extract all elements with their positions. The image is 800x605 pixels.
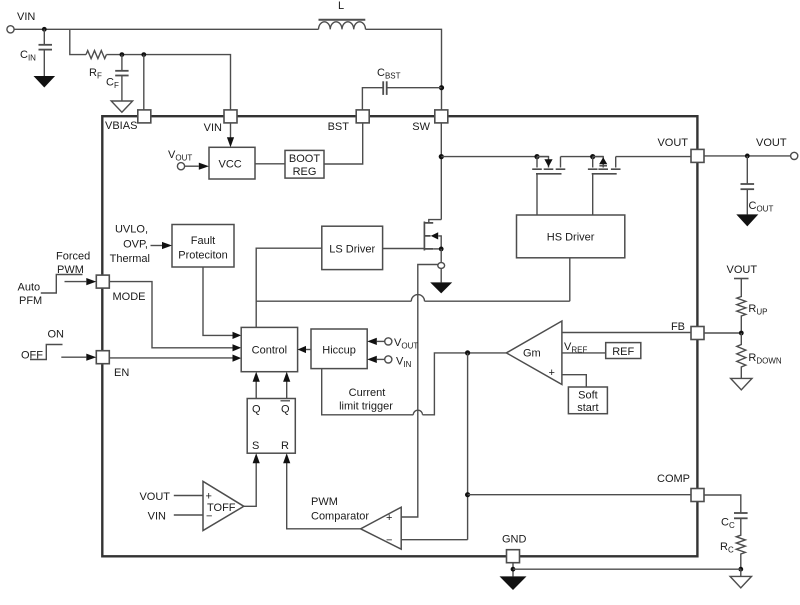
svg-text:RF: RF — [89, 67, 102, 81]
node junction dot COMP branch — [465, 492, 470, 497]
node VOUT T-bar — [734, 278, 749, 280]
wire VIN pin to VCC with arrow — [230, 123, 232, 138]
transistor Q1 (high-side FET with body diode down) — [532, 154, 565, 215]
svg-text:CBST: CBST — [377, 67, 401, 81]
svg-text:Soft: Soft — [578, 390, 598, 402]
svg-text:start: start — [577, 402, 598, 414]
node junction dot M1 source — [439, 247, 444, 252]
svg-text:OVP,: OVP, — [123, 239, 148, 251]
svg-text:Hiccup: Hiccup — [322, 345, 356, 357]
svg-text:GND: GND — [502, 534, 527, 546]
svg-text:BST: BST — [328, 121, 350, 133]
wire EN pin to Control — [109, 357, 232, 359]
svg-text:CC: CC — [721, 517, 735, 531]
pin COMP — [691, 489, 704, 502]
pin MODE — [96, 275, 109, 288]
node junction dot below RC — [738, 567, 743, 572]
svg-text:HS Driver: HS Driver — [547, 232, 595, 244]
svg-text:BOOT: BOOT — [289, 153, 320, 165]
svg-text:VOUT: VOUT — [756, 137, 787, 149]
wire branch from VIN rail down to RF — [70, 29, 86, 54]
wire Fault Proteciton to Control — [203, 267, 233, 335]
svg-text:REG: REG — [293, 166, 317, 178]
node junction dot Gm output — [465, 350, 470, 355]
svg-text:Current: Current — [349, 387, 386, 399]
pin VIN — [224, 110, 237, 123]
svg-text:Gm: Gm — [523, 348, 541, 360]
box Fault Proteciton — [172, 225, 234, 268]
wire M1 source to sense circle — [440, 249, 442, 263]
wire GND pin stub down — [512, 563, 514, 577]
svg-text:+: + — [206, 491, 212, 503]
svg-text:RDOWN: RDOWN — [748, 352, 782, 366]
svg-text:Proteciton: Proteciton — [178, 250, 228, 262]
latch U2 (SR flip-flop) — [247, 399, 295, 454]
wire VBIAS tap down to VBIAS pin — [143, 55, 145, 110]
svg-text:SW: SW — [412, 121, 430, 133]
capacitor CIN — [20, 29, 52, 76]
terminal VIN (input pin circle) — [7, 26, 14, 33]
svg-text:MODE: MODE — [113, 291, 146, 303]
box HS Driver — [517, 215, 625, 258]
box Control — [241, 327, 297, 371]
wire VIN to TOFF - input — [174, 514, 203, 516]
op-amp Gm error amplifier — [506, 321, 562, 385]
signal step symbol at MODE — [41, 275, 83, 294]
svg-text:VIN: VIN — [148, 511, 166, 523]
svg-text:RUP: RUP — [748, 303, 767, 317]
wire arrow TOFF output into S — [244, 463, 256, 506]
pin GND — [507, 550, 520, 563]
box Soft start — [568, 387, 607, 414]
wire VCC to BOOT REG — [255, 163, 285, 165]
box BOOT REG — [285, 150, 324, 178]
wire hop over sense line — [411, 295, 424, 302]
ground (open) below RDOWN — [731, 378, 752, 389]
svg-text:Q: Q — [281, 404, 290, 416]
signal step symbol at EN — [30, 345, 63, 360]
wire VIN main rail — [14, 28, 318, 30]
svg-text:limit trigger: limit trigger — [339, 401, 393, 413]
ground (solid) below GND pin — [500, 576, 527, 590]
box REF — [606, 343, 641, 359]
wire MODE pin to Control — [109, 282, 232, 348]
node junction dot at CF tap — [120, 52, 125, 57]
node VOUT input to VCC — [177, 163, 184, 170]
pin EN — [96, 351, 109, 364]
resistor RF — [86, 51, 106, 59]
svg-text:Q: Q — [252, 404, 261, 416]
transistor M1 (low-side NMOS) — [424, 220, 441, 251]
pin VBIAS — [138, 110, 151, 123]
wire VOUT to TOFF + input — [174, 495, 203, 497]
wire arrow into MODE pin — [65, 281, 87, 283]
wire Gm FB input to FB pin — [562, 332, 691, 334]
svg-text:S: S — [252, 440, 259, 452]
resistor RC — [736, 518, 745, 569]
op-amp TOFF comparator — [203, 481, 244, 530]
ground (solid) below CIN — [34, 76, 56, 88]
wire BOOT REG to BST pin — [324, 123, 363, 164]
wire Gm + input to Soft start — [562, 375, 586, 387]
svg-text:VOUT: VOUT — [727, 264, 758, 276]
svg-text:ON: ON — [48, 329, 65, 341]
node VOUT input circle to Hiccup — [385, 338, 392, 345]
wire Gm output to COMP vertical — [468, 352, 507, 354]
wire GND to compensation ground rail — [513, 568, 741, 570]
node junction dot COUT tap — [745, 154, 750, 159]
pin BST — [356, 110, 369, 123]
svg-text:VOUT: VOUT — [139, 491, 170, 503]
wire HS Driver output down — [569, 258, 571, 301]
wire internal VOUT rail — [441, 156, 691, 158]
wire COMP node to COMP pin — [468, 494, 691, 496]
capacitor CBST — [362, 67, 441, 110]
wire SW pin down to switch node — [440, 123, 442, 220]
svg-text:Fault: Fault — [191, 235, 215, 247]
svg-text:UVLO,: UVLO, — [115, 224, 148, 236]
resistor RDOWN — [737, 333, 746, 378]
svg-text:R: R — [281, 440, 289, 452]
svg-text:+: + — [386, 512, 392, 524]
svg-text:VIN: VIN — [17, 11, 35, 23]
svg-text:Auto: Auto — [18, 282, 41, 294]
wire sense circle to ground — [440, 268, 442, 282]
op-amp PWM comparator — [361, 507, 402, 549]
capacitor CC — [721, 513, 748, 530]
node junction dot at VBIAS tap — [141, 52, 146, 57]
svg-text:VIN: VIN — [204, 122, 222, 134]
box VCC regulator U-VCC — [209, 147, 255, 179]
node sense circle — [438, 263, 445, 269]
svg-text:EN: EN — [114, 367, 129, 379]
node junction dot GND — [511, 567, 516, 572]
wire drive net: LS input, vertical to Control, horizontal to HS riser with hop — [256, 248, 322, 327]
transistor Q2 (high-side FET with body diode up) — [588, 154, 621, 215]
wire VOUT pin to external VOUT terminal — [704, 155, 791, 157]
svg-text:REF: REF — [612, 346, 634, 358]
wire PWM - input to COMP node — [401, 539, 467, 541]
wire arrow PWM comparator output into R — [287, 463, 361, 529]
wire LS Driver to M1 gate — [383, 248, 425, 250]
wire VREF input to REF box — [562, 352, 606, 354]
wire arrow VOUT into Hiccup — [377, 340, 385, 342]
box LS Driver — [322, 226, 383, 269]
svg-text:CF: CF — [106, 77, 119, 91]
svg-text:VOUT: VOUT — [168, 149, 192, 163]
wire arrow Q to Control — [255, 382, 257, 399]
box Hiccup — [311, 329, 367, 369]
wire RF output to VIN pin branch — [106, 55, 230, 110]
wire current sense branch to PWM comparator — [401, 265, 438, 518]
wire arrow Qbar to Control — [286, 382, 288, 399]
svg-text:−: − — [386, 535, 392, 547]
wire inductor to SW drop — [366, 29, 442, 109]
node junction dot at CIN tap — [42, 27, 47, 32]
node junction dot SW to VOUT rail — [439, 154, 444, 159]
wire FB pin to divider — [704, 332, 741, 334]
svg-text:FB: FB — [671, 321, 685, 333]
wire VOUT circle to VCC with arrow — [185, 165, 199, 167]
svg-text:+: + — [549, 367, 555, 379]
wire COMP pin to compensation network — [704, 495, 741, 513]
pin VOUT — [691, 149, 704, 162]
svg-text:−: − — [206, 511, 212, 523]
pin FB — [691, 327, 704, 340]
IC boundary box — [102, 116, 697, 556]
capacitor CF — [106, 55, 129, 101]
svg-text:VOUT: VOUT — [394, 337, 418, 351]
svg-text:COUT: COUT — [749, 200, 774, 214]
capacitor COUT — [741, 156, 774, 215]
svg-text:COMP: COMP — [657, 473, 690, 485]
svg-text:RC: RC — [720, 541, 734, 555]
svg-text:Thermal: Thermal — [110, 253, 150, 265]
pin SW — [435, 110, 448, 123]
wire arrow into EN pin — [61, 356, 86, 358]
svg-text:PWM: PWM — [311, 496, 338, 508]
svg-text:PFM: PFM — [19, 295, 42, 307]
svg-text:L: L — [338, 0, 344, 12]
svg-text:LS Driver: LS Driver — [329, 244, 375, 256]
svg-text:Forced: Forced — [56, 251, 90, 263]
ground (open) below CF — [111, 101, 132, 112]
wire arrow Hiccup to Control — [306, 349, 311, 351]
svg-text:VIN: VIN — [396, 356, 412, 370]
wire current limit trigger: Hiccup bottom to COMP node with hop — [322, 369, 414, 415]
svg-text:Comparator: Comparator — [311, 511, 369, 523]
node VIN input circle to Hiccup — [385, 356, 392, 363]
resistor RUP — [737, 279, 746, 334]
ground (open) below RC — [740, 569, 742, 576]
node junction dot FB divider — [739, 331, 744, 336]
inductor L — [319, 0, 366, 29]
svg-text:VCC: VCC — [219, 159, 242, 171]
svg-text:VOUT: VOUT — [657, 137, 688, 149]
node junction dot at CBST/SW — [439, 85, 444, 90]
wire arrow VIN into Hiccup — [377, 358, 385, 360]
terminal VOUT circle — [791, 152, 798, 159]
ground (solid) below COUT — [736, 214, 758, 226]
svg-text:Control: Control — [252, 345, 287, 357]
svg-text:CIN: CIN — [20, 49, 36, 63]
svg-text:VBIAS: VBIAS — [105, 120, 137, 132]
ground (solid) below M1 — [430, 282, 452, 293]
wire COMP vertical — [467, 353, 469, 540]
wire arrow into Fault Proteciton — [151, 245, 163, 247]
